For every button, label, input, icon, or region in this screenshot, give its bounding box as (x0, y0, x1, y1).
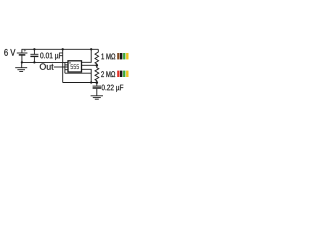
node rail VCC riser junction (90, 48, 92, 50)
wire Out lead (54, 66, 65, 68)
battery B1 6 V (17, 53, 28, 55)
wire pin stub left 2 (65, 64, 68, 66)
battery plus sign (24, 49, 26, 51)
wire top supply rail (22, 49, 98, 53)
node rail C1 junction (33, 48, 35, 50)
wire rail-to-bottom vertical left of IC (62, 49, 64, 82)
wire bottom rail (63, 82, 97, 84)
ground symbol left (15, 62, 27, 71)
wire pin 8 VCC stub and riser (82, 49, 92, 62)
resistor color chip R1 brown band (117, 53, 119, 59)
wire pin stub left 3 output (65, 66, 68, 68)
node R2 C2 junction (96, 81, 99, 84)
resistor R1 1 Mohm (95, 49, 99, 65)
resistor R2 2 Mohm (95, 65, 99, 82)
label Out (40, 63, 54, 69)
label 2 Mohm (101, 71, 115, 77)
wire pin stub left 1 (65, 61, 68, 63)
IC U1 555 body (68, 61, 82, 72)
resistor color chip R1 green band (123, 53, 125, 59)
label 1 Mohm (101, 53, 115, 59)
wire pin stub left 4 (65, 69, 68, 71)
label 0.01 uF (40, 53, 62, 60)
node R1 R2 pin7 junction (96, 64, 99, 67)
capacitor C1 0.01 uF (30, 49, 38, 62)
wire left pin bus (64, 62, 66, 73)
label 0.22 uF (102, 85, 124, 92)
resistor color chip R2 green band (123, 71, 125, 77)
resistor color chip R1 black band (120, 53, 122, 59)
IC label 555 (71, 64, 80, 69)
resistor color chip R2 black band (120, 71, 122, 77)
label 6 V (4, 49, 15, 56)
node threshold bottom-rail junction (90, 81, 92, 83)
wire pin 6 threshold stub and drop (82, 69, 92, 82)
node battery-ground junction (21, 61, 23, 63)
IC pin-1 marker dot (69, 62, 70, 63)
wire battery negative to ground junction (21, 56, 23, 63)
wire pin 7 discharge stub (82, 64, 97, 66)
wire ground line to IC (22, 61, 65, 63)
resistor color chip R2 gold band (126, 71, 128, 77)
resistor color chip R1 gold band (126, 53, 128, 59)
capacitor C2 0.22 uF (93, 83, 101, 96)
resistor color chip R2 red band (117, 71, 119, 77)
ground symbol right (91, 96, 103, 99)
wire under-IC run to threshold drop (65, 72, 91, 74)
node rail reset-drop junction (62, 48, 64, 50)
node C1 ground junction (33, 61, 35, 63)
